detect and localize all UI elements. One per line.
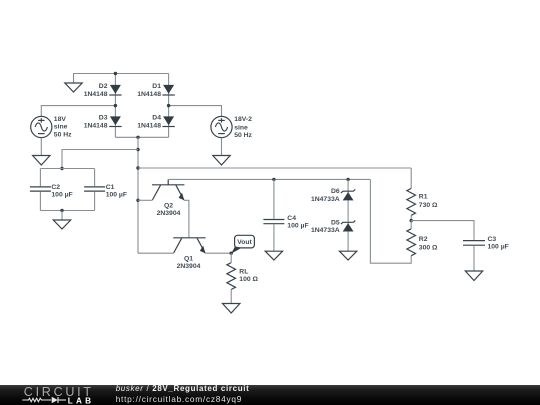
wire bridge left column <box>114 74 116 138</box>
wire V2 to ground <box>221 138 223 156</box>
svg-text:1N4148: 1N4148 <box>84 91 108 98</box>
node bridge left mid junction <box>114 104 117 107</box>
wire mid-right <box>169 106 222 117</box>
node bridge top junction <box>114 72 117 75</box>
svg-text:C3: C3 <box>488 236 497 243</box>
wire feed to filter caps <box>62 150 138 169</box>
svg-text:C4: C4 <box>287 215 296 222</box>
wire Q1 collector <box>138 252 174 254</box>
source V1 18V sine <box>31 116 72 138</box>
wire top rail of bridge <box>74 74 169 84</box>
capacitor C3 <box>463 236 509 271</box>
svg-text:sine: sine <box>234 124 248 131</box>
svg-text:100 µF: 100 µF <box>106 192 127 199</box>
svg-text:50 Hz: 50 Hz <box>54 131 72 138</box>
svg-text:LAB: LAB <box>68 396 94 405</box>
diode D2 <box>84 83 122 98</box>
node C4 tap <box>272 178 275 181</box>
transistor Q1 <box>173 238 205 270</box>
svg-text:1N4148: 1N4148 <box>137 91 161 98</box>
node R1-R2 <box>410 219 413 222</box>
node rail junction <box>136 166 139 169</box>
logo squiggle <box>22 397 66 403</box>
svg-text:18V: 18V <box>54 116 67 123</box>
svg-text:1N4733A: 1N4733A <box>311 196 340 203</box>
capacitor C4 <box>263 179 308 251</box>
svg-text:1N4148: 1N4148 <box>137 123 161 130</box>
svg-text:R2: R2 <box>419 236 428 243</box>
node bridge right mid junction <box>167 104 170 107</box>
ground under RL <box>223 304 240 314</box>
node cap top feed junction <box>60 167 63 170</box>
wire bridge right column <box>168 74 170 138</box>
svg-text:D6: D6 <box>331 188 340 195</box>
ground under V2 <box>213 156 230 166</box>
wire V1 to ground <box>40 138 42 156</box>
resistor R2 <box>407 221 438 256</box>
wire zener column <box>347 179 349 251</box>
resistor RL <box>227 253 259 303</box>
svg-text:100 Ω: 100 Ω <box>239 276 258 283</box>
resistor R1 <box>407 168 438 221</box>
zener D5 <box>311 219 355 234</box>
svg-text:100 µF: 100 µF <box>51 192 72 199</box>
svg-text:Q1: Q1 <box>184 255 193 262</box>
ground under zeners <box>339 251 356 260</box>
wire Q2 base row <box>168 178 370 180</box>
node bridge bottom junction <box>136 136 139 139</box>
svg-text:http://circuitlab.com/cz84yq9: http://circuitlab.com/cz84yq9 <box>116 394 242 404</box>
svg-text:2N3904: 2N3904 <box>157 210 181 217</box>
ground under V1 <box>33 156 50 166</box>
transistor Q2 <box>152 179 184 217</box>
source V2 18V-2 sine <box>211 116 253 139</box>
wire R1R2 node to C3 <box>411 221 474 240</box>
svg-text:1N4733A: 1N4733A <box>311 227 340 234</box>
svg-text:D5: D5 <box>331 219 340 226</box>
Vout label flag <box>231 235 254 253</box>
wire mid-left <box>41 106 115 117</box>
svg-text:1N4148: 1N4148 <box>84 123 108 130</box>
svg-text:100 µF: 100 µF <box>287 223 308 230</box>
svg-text:sine: sine <box>54 124 68 131</box>
wire center drop <box>137 137 139 253</box>
node Q2 collector junction <box>136 199 139 202</box>
svg-text:RL: RL <box>239 269 248 276</box>
svg-text:50 Hz: 50 Hz <box>234 132 252 139</box>
svg-text:C1: C1 <box>106 184 115 191</box>
wire cap bottom to ground <box>61 211 63 221</box>
node cap bottom junction <box>60 209 63 212</box>
svg-text:Vout: Vout <box>237 239 252 246</box>
node feed tap junction <box>136 148 139 151</box>
logo diode <box>52 397 58 404</box>
ground under caps <box>53 220 70 229</box>
capacitor C1 <box>84 169 127 211</box>
svg-text:100 µF: 100 µF <box>488 244 509 251</box>
node Vout <box>230 252 233 255</box>
wire Q1 emitter to Vout node <box>205 252 231 254</box>
svg-text:D3: D3 <box>99 115 108 122</box>
svg-text:730 Ω: 730 Ω <box>419 202 438 209</box>
svg-text:300 Ω: 300 Ω <box>419 244 438 251</box>
svg-text:D2: D2 <box>99 83 108 90</box>
capacitor C2 <box>30 169 73 211</box>
node zener tap <box>346 178 349 181</box>
ground under C4 <box>265 251 282 260</box>
zener D6 <box>311 188 355 203</box>
wire main rail <box>138 167 411 169</box>
svg-text:2N3904: 2N3904 <box>177 263 201 270</box>
wire bridge bottom <box>115 136 168 138</box>
wire cap top <box>40 168 94 170</box>
diode D3 <box>84 115 122 130</box>
svg-text:C2: C2 <box>51 184 60 191</box>
ground top-left <box>65 83 82 92</box>
wire cap bottom <box>40 210 94 212</box>
svg-text:Q2: Q2 <box>164 202 173 209</box>
svg-text:D1: D1 <box>152 83 161 90</box>
svg-text:D4: D4 <box>152 115 161 122</box>
svg-text:18V-2: 18V-2 <box>234 116 252 123</box>
diode D4 <box>137 115 175 130</box>
wire Q2 emitter to Q1 base <box>184 200 189 238</box>
svg-text:R1: R1 <box>419 194 428 201</box>
wire Q2 collector <box>138 199 152 201</box>
svg-text:busker / 28V_Regulated circuit: busker / 28V_Regulated circuit <box>116 384 250 393</box>
ground under C3 <box>465 271 482 281</box>
wire right loop down <box>370 179 411 263</box>
diode D1 <box>137 83 175 98</box>
